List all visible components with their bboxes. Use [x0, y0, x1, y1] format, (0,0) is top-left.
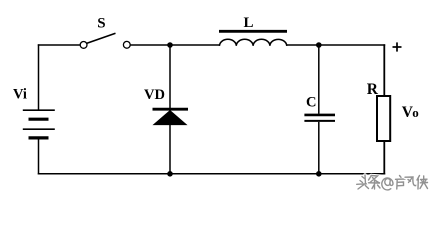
plus polarity mark	[393, 42, 402, 51]
svg-text:VD: VD	[144, 87, 165, 103]
switch S	[80, 33, 130, 48]
wire capacitor branch lower	[318, 122, 320, 174]
node dot bottom capacitor junction	[316, 171, 322, 177]
wire right vertical upper (corner to resistor)	[383, 44, 385, 96]
watermark 头条@卢飞侠 (drawn strokes, gray outline style with white halo)	[357, 175, 428, 190]
battery Vi	[23, 110, 55, 138]
wire right vertical lower (resistor to bottom)	[383, 142, 385, 175]
char 侠 halo	[417, 176, 428, 190]
char 侠	[417, 176, 428, 190]
wire between switch and inductor	[130, 44, 220, 46]
svg-text:L: L	[244, 15, 254, 31]
char 飞	[405, 177, 418, 186]
wire capacitor branch upper	[318, 45, 320, 114]
svg-text:C: C	[306, 95, 316, 111]
wire inductor to top-right corner	[286, 44, 385, 46]
char 飞 halo	[405, 177, 418, 186]
diode VD	[153, 109, 189, 124]
char @	[382, 178, 393, 190]
char 条	[369, 176, 381, 190]
wire bottom horizontal	[38, 173, 385, 175]
resistor R	[377, 96, 390, 141]
char @ halo	[382, 178, 393, 190]
wire top-left horizontal (battery top to switch)	[38, 44, 81, 46]
svg-text:S: S	[97, 16, 105, 32]
capacitor C	[304, 115, 335, 121]
svg-text:Vi: Vi	[13, 87, 27, 103]
char 卢 halo	[396, 176, 406, 190]
inductor L coil	[220, 39, 287, 46]
char 头 halo	[357, 175, 369, 189]
char 头	[357, 175, 369, 189]
char 条 halo	[369, 176, 381, 190]
wire diode branch vertical	[169, 45, 171, 174]
wire left vertical upper (top wire to battery)	[38, 44, 40, 110]
inductor L core bar	[219, 30, 287, 33]
node dot bottom diode junction	[167, 171, 173, 177]
wire left vertical lower (battery to bottom wire)	[38, 138, 40, 175]
svg-text:R: R	[367, 81, 379, 98]
char 卢	[396, 176, 406, 190]
node dot top diode junction	[167, 42, 173, 48]
svg-text:o: o	[412, 105, 419, 120]
node dot top capacitor junction	[316, 42, 322, 48]
